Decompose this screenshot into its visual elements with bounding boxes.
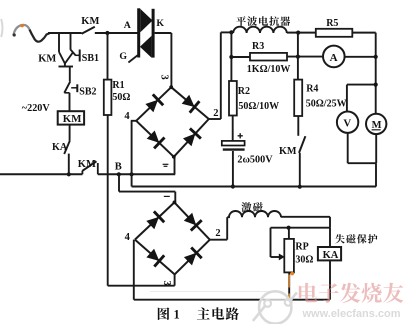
svg-text:A: A: [330, 52, 338, 64]
node: RP top junction: [287, 226, 291, 230]
rectifier bridge 1: [136, 87, 171, 121]
svg-text:www.elecfans.com: www.elecfans.com: [302, 308, 401, 320]
diode bridge1 bottom-left: [147, 131, 160, 143]
pushbutton SB2: [64, 81, 70, 93]
caption 图1 主电路: [158, 307, 170, 320]
svg-text:3: 3: [159, 75, 170, 80]
wire R1 bottom long lead down: [107, 115, 109, 286]
gate lead G: [128, 55, 138, 63]
resistor R3: [250, 53, 287, 61]
contact KM (bottom bus): [81, 171, 83, 175]
wire R3 right to ammeter: [287, 56, 323, 58]
gray watermark logo circle: [253, 291, 297, 323]
diode bridge2 bottom-right: [184, 253, 197, 266]
wire: top main bus left part: [48, 32, 82, 34]
svg-text:KM: KM: [78, 159, 96, 170]
wire: bottom bus to bridge1: [98, 173, 175, 175]
wire B to bridge2 top: [118, 174, 120, 191]
wire bridge1 bottom to bus: [174, 157, 176, 175]
AC source lead-in squiggle: [14, 25, 30, 36]
capacitor plus sign: [238, 135, 243, 137]
svg-text:R1: R1: [112, 80, 124, 91]
svg-text:A: A: [124, 20, 131, 31]
right riser wire: [375, 33, 377, 114]
contact KM (armature circuit): [299, 136, 305, 153]
capacitor C top plate: [222, 141, 245, 146]
wire K to bridge1 top: [155, 32, 172, 34]
source curve start tip: [13, 33, 16, 36]
resistor R1: [104, 80, 112, 115]
RP wiper arrow: [279, 254, 285, 261]
label 失磁保护 (field-loss protection): [335, 234, 345, 243]
wire R4 to KM contact: [297, 116, 299, 136]
label 激磁 (field excitation): [241, 202, 251, 212]
svg-text:K: K: [156, 18, 164, 29]
node: R3 tap: [229, 55, 233, 59]
diode bridge2 top-left: [146, 217, 159, 229]
wire: bottom main bus left: [0, 173, 82, 175]
svg-text:1: 1: [174, 307, 180, 321]
wire R5 to right riser: [352, 32, 375, 34]
diode bridge1 bottom-right: [183, 134, 195, 147]
node B: [117, 172, 121, 176]
wire RP bottom lead: [288, 272, 290, 299]
node: KA branch junction: [67, 172, 71, 176]
wire R3 branch vertical: [230, 32, 232, 81]
svg-text:SB1: SB1: [82, 53, 99, 64]
svg-text:50Ω/25W: 50Ω/25W: [306, 99, 347, 110]
svg-text:R5: R5: [326, 18, 338, 29]
node: R1 top junction: [105, 31, 109, 35]
svg-text:50Ω: 50Ω: [112, 92, 130, 103]
minus tick at bridge2 top: [164, 195, 170, 197]
wire ammeter to riser: [345, 56, 376, 58]
svg-text:2: 2: [213, 108, 218, 119]
left edge scan artifact: [1, 19, 2, 37]
wire V/M top tee: [347, 84, 376, 86]
orange scan artifact on source curve: [21, 24, 24, 27]
svg-text:V: V: [343, 118, 351, 130]
orange artifacts on RP lead: [288, 275, 290, 288]
svg-text:R4: R4: [306, 84, 318, 95]
wire KM to rail: [299, 153, 301, 187]
smoothing reactor coil: [233, 27, 287, 33]
minus tick at bridge1 bottom: [163, 163, 169, 165]
wire node4 drop (bridge2 left): [133, 240, 135, 300]
wire capacitor to rail: [232, 151, 234, 187]
svg-text:KM: KM: [279, 146, 297, 157]
red watermark 电子发烧友: [299, 283, 318, 303]
svg-text:R3: R3: [252, 41, 264, 52]
svg-text:RP: RP: [295, 241, 308, 252]
svg-text:B: B: [115, 161, 122, 172]
wire bridge2 bottom stub: [174, 274, 176, 285]
svg-text:SB2: SB2: [79, 87, 96, 98]
node: R4 crossing junction: [296, 55, 300, 59]
rectifier bridge 2 (excitation): [135, 202, 175, 239]
svg-text:3: 3: [161, 281, 172, 286]
wire KA branch vertical: [329, 228, 331, 247]
pushbutton SB1: [71, 50, 76, 56]
wire R4 top lead: [297, 33, 299, 80]
contactor coil KM: [58, 111, 84, 124]
svg-text:50Ω/10W: 50Ω/10W: [238, 101, 279, 112]
wire: branch merge bar: [64, 63, 66, 67]
svg-text:KM: KM: [38, 54, 56, 65]
node: rail drop junction: [130, 172, 134, 176]
resistor R2: [229, 81, 237, 116]
svg-text:KA: KA: [323, 250, 339, 261]
wire KA to bottom bus: [68, 154, 70, 175]
wire to contactor coil: [69, 93, 71, 111]
wire RP wiper loop: [270, 228, 272, 257]
wire M bottom: [375, 134, 377, 163]
ammeter A: [323, 46, 345, 68]
svg-text:G: G: [119, 51, 127, 62]
potentiometer RP: [284, 239, 294, 273]
wire RP top lead: [288, 228, 290, 239]
wire V bottom: [347, 133, 349, 163]
label 平波电抗器 (smoothing reactor): [236, 16, 246, 26]
motor M: [366, 114, 386, 134]
wire field coil to KA branch: [281, 216, 330, 218]
thyristor V: lower triangle: [140, 36, 152, 58]
contact KM (line contactor, top): [82, 27, 95, 34]
node: R5/R4 junction: [296, 30, 300, 34]
thyristor V: left bar: [137, 8, 140, 57]
wire KA bottom: [329, 260, 331, 299]
svg-text:KM: KM: [81, 16, 99, 27]
wire bridge1 left to node4 drop: [131, 120, 136, 122]
faint scan line: [150, 291, 282, 293]
resistor R4: [294, 80, 302, 116]
svg-text:30Ω: 30Ω: [295, 254, 313, 265]
svg-text:1KΩ/10W: 1KΩ/10W: [247, 64, 291, 75]
voltmeter V: [337, 112, 358, 133]
svg-text:~220V: ~220V: [22, 103, 51, 114]
wire R2 to capacitor: [232, 116, 234, 141]
relay coil KA: [318, 247, 341, 260]
svg-text:KA: KA: [52, 142, 68, 153]
thyristor V: upper triangle: [140, 9, 152, 33]
wire node4/rail vertical: [131, 121, 133, 187]
diode bridge1 top-left: [145, 100, 158, 113]
contact KM (self-hold, aux): [59, 52, 65, 64]
svg-text:KM: KM: [63, 113, 82, 125]
node: tap for SB1 branch: [70, 32, 72, 50]
diode bridge1 top-right: [182, 95, 195, 107]
capacitor C bottom plate: [223, 148, 245, 150]
wire coil to KA contact: [69, 125, 71, 141]
wire RP loop top: [271, 227, 331, 229]
node: KM/rail junction: [298, 185, 302, 189]
wire bridge1 right to riser: [209, 118, 221, 120]
resistor R5: [316, 29, 353, 37]
svg-text:2ω500V: 2ω500V: [237, 155, 273, 166]
diode bridge2 top-right: [184, 213, 196, 226]
svg-text:4: 4: [124, 111, 130, 122]
rail: middle return bus: [132, 186, 376, 188]
node: reactor left junction: [229, 30, 233, 34]
wire reactor to R5 node: [287, 32, 298, 34]
field coil 激磁: [227, 211, 281, 217]
wire: top bus to thyristor: [95, 32, 138, 34]
svg-text:R2: R2: [238, 86, 250, 97]
wire B2: bottom return bus: [134, 299, 330, 301]
svg-text:2: 2: [215, 228, 220, 239]
wire meters to rail corner: [375, 163, 377, 186]
wire bridge2 right to field coil riser: [210, 239, 227, 241]
thyristor V: right bar: [152, 9, 155, 58]
wire R1 top lead: [107, 33, 109, 80]
contact KA (field-loss relay contact): [64, 141, 70, 154]
node: cap/rail junction: [231, 184, 235, 188]
svg-text:4: 4: [125, 232, 131, 243]
node: tap for KM aux branch: [58, 32, 60, 52]
diode bridge2 bottom-left: [146, 249, 159, 261]
wire A: excitation bridge AC feed: [108, 285, 175, 287]
